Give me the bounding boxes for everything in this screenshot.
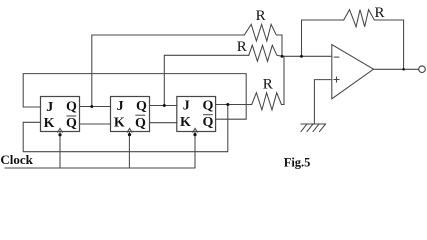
- junction dot feedback tap: [300, 55, 303, 58]
- Qbar3 overline: [204, 114, 213, 116]
- op-amp minus sign: [334, 56, 339, 58]
- wire J1 feedback from Q-bar3: [23, 74, 246, 120]
- wire clock to FF2: [128, 132, 130, 169]
- ground: [301, 123, 326, 125]
- svg-text:R: R: [256, 8, 266, 24]
- resistor R3: [252, 56, 284, 110]
- wire Q1 to J2: [80, 106, 111, 108]
- junction dot FF1 clock: [58, 133, 61, 136]
- clock line: [5, 132, 195, 169]
- wire Q3 to resistor R3: [216, 104, 252, 106]
- wire Q2 to J3: [150, 105, 178, 107]
- svg-text:K: K: [44, 116, 55, 131]
- junction dot Q3 node: [226, 103, 229, 106]
- junction dot Q2 node: [163, 104, 166, 107]
- flip-flop FF2 box: [111, 97, 150, 132]
- output terminal circle: [419, 66, 426, 73]
- svg-text:J: J: [46, 100, 53, 115]
- wire Q2 up to resistor R2: [164, 55, 248, 105]
- svg-text:Q: Q: [202, 115, 213, 130]
- junction dot output node: [402, 68, 405, 71]
- op-amp plus sign: [334, 79, 339, 81]
- svg-text:Q: Q: [135, 116, 146, 131]
- wire noninverting input to ground: [314, 80, 331, 124]
- flip-flop FF1 box: [41, 97, 80, 132]
- junction dot Q1 node: [90, 105, 93, 108]
- wire Q1 up to resistor R1: [92, 35, 245, 107]
- svg-text:R: R: [263, 76, 273, 92]
- Qbar1 overline: [67, 115, 76, 117]
- FF3 clock caret: [193, 128, 198, 132]
- svg-text:Q: Q: [202, 99, 213, 114]
- resistor R2: [249, 45, 282, 61]
- svg-text:R: R: [237, 39, 247, 55]
- svg-text:R: R: [374, 5, 384, 21]
- wire K1 feedback from Q3: [23, 105, 228, 152]
- FF2 clock caret: [127, 128, 132, 132]
- junction dot summing node: [281, 55, 284, 58]
- wire clock to FF1: [59, 132, 61, 169]
- wire Qbar2 to K3: [150, 122, 178, 124]
- wire op-amp output: [374, 68, 419, 70]
- svg-text:K: K: [180, 115, 191, 130]
- junction dot FF2 clock: [128, 133, 131, 136]
- wire feedback to resistor R4: [302, 20, 344, 56]
- svg-text:J: J: [183, 99, 190, 114]
- junction dot FF3 clock: [193, 133, 196, 136]
- Qbar2 overline: [136, 114, 145, 116]
- flip-flop FF3 box: [177, 97, 216, 132]
- resistor R1: [244, 24, 282, 56]
- svg-text:Q: Q: [66, 116, 77, 131]
- wire Qbar1 to K2: [80, 123, 111, 125]
- svg-text:J: J: [117, 99, 124, 114]
- wire summing node to op-amp inverting input: [282, 55, 332, 57]
- svg-text:Fig.5: Fig.5: [284, 156, 311, 170]
- svg-text:Q: Q: [66, 99, 77, 114]
- op-amp U1 triangle: [332, 45, 374, 99]
- resistor R4 feedback: [344, 10, 404, 70]
- svg-text:Q: Q: [136, 99, 147, 114]
- svg-text:K: K: [114, 115, 125, 130]
- FF1 clock caret: [58, 128, 63, 132]
- svg-text:Clock: Clock: [0, 152, 33, 167]
